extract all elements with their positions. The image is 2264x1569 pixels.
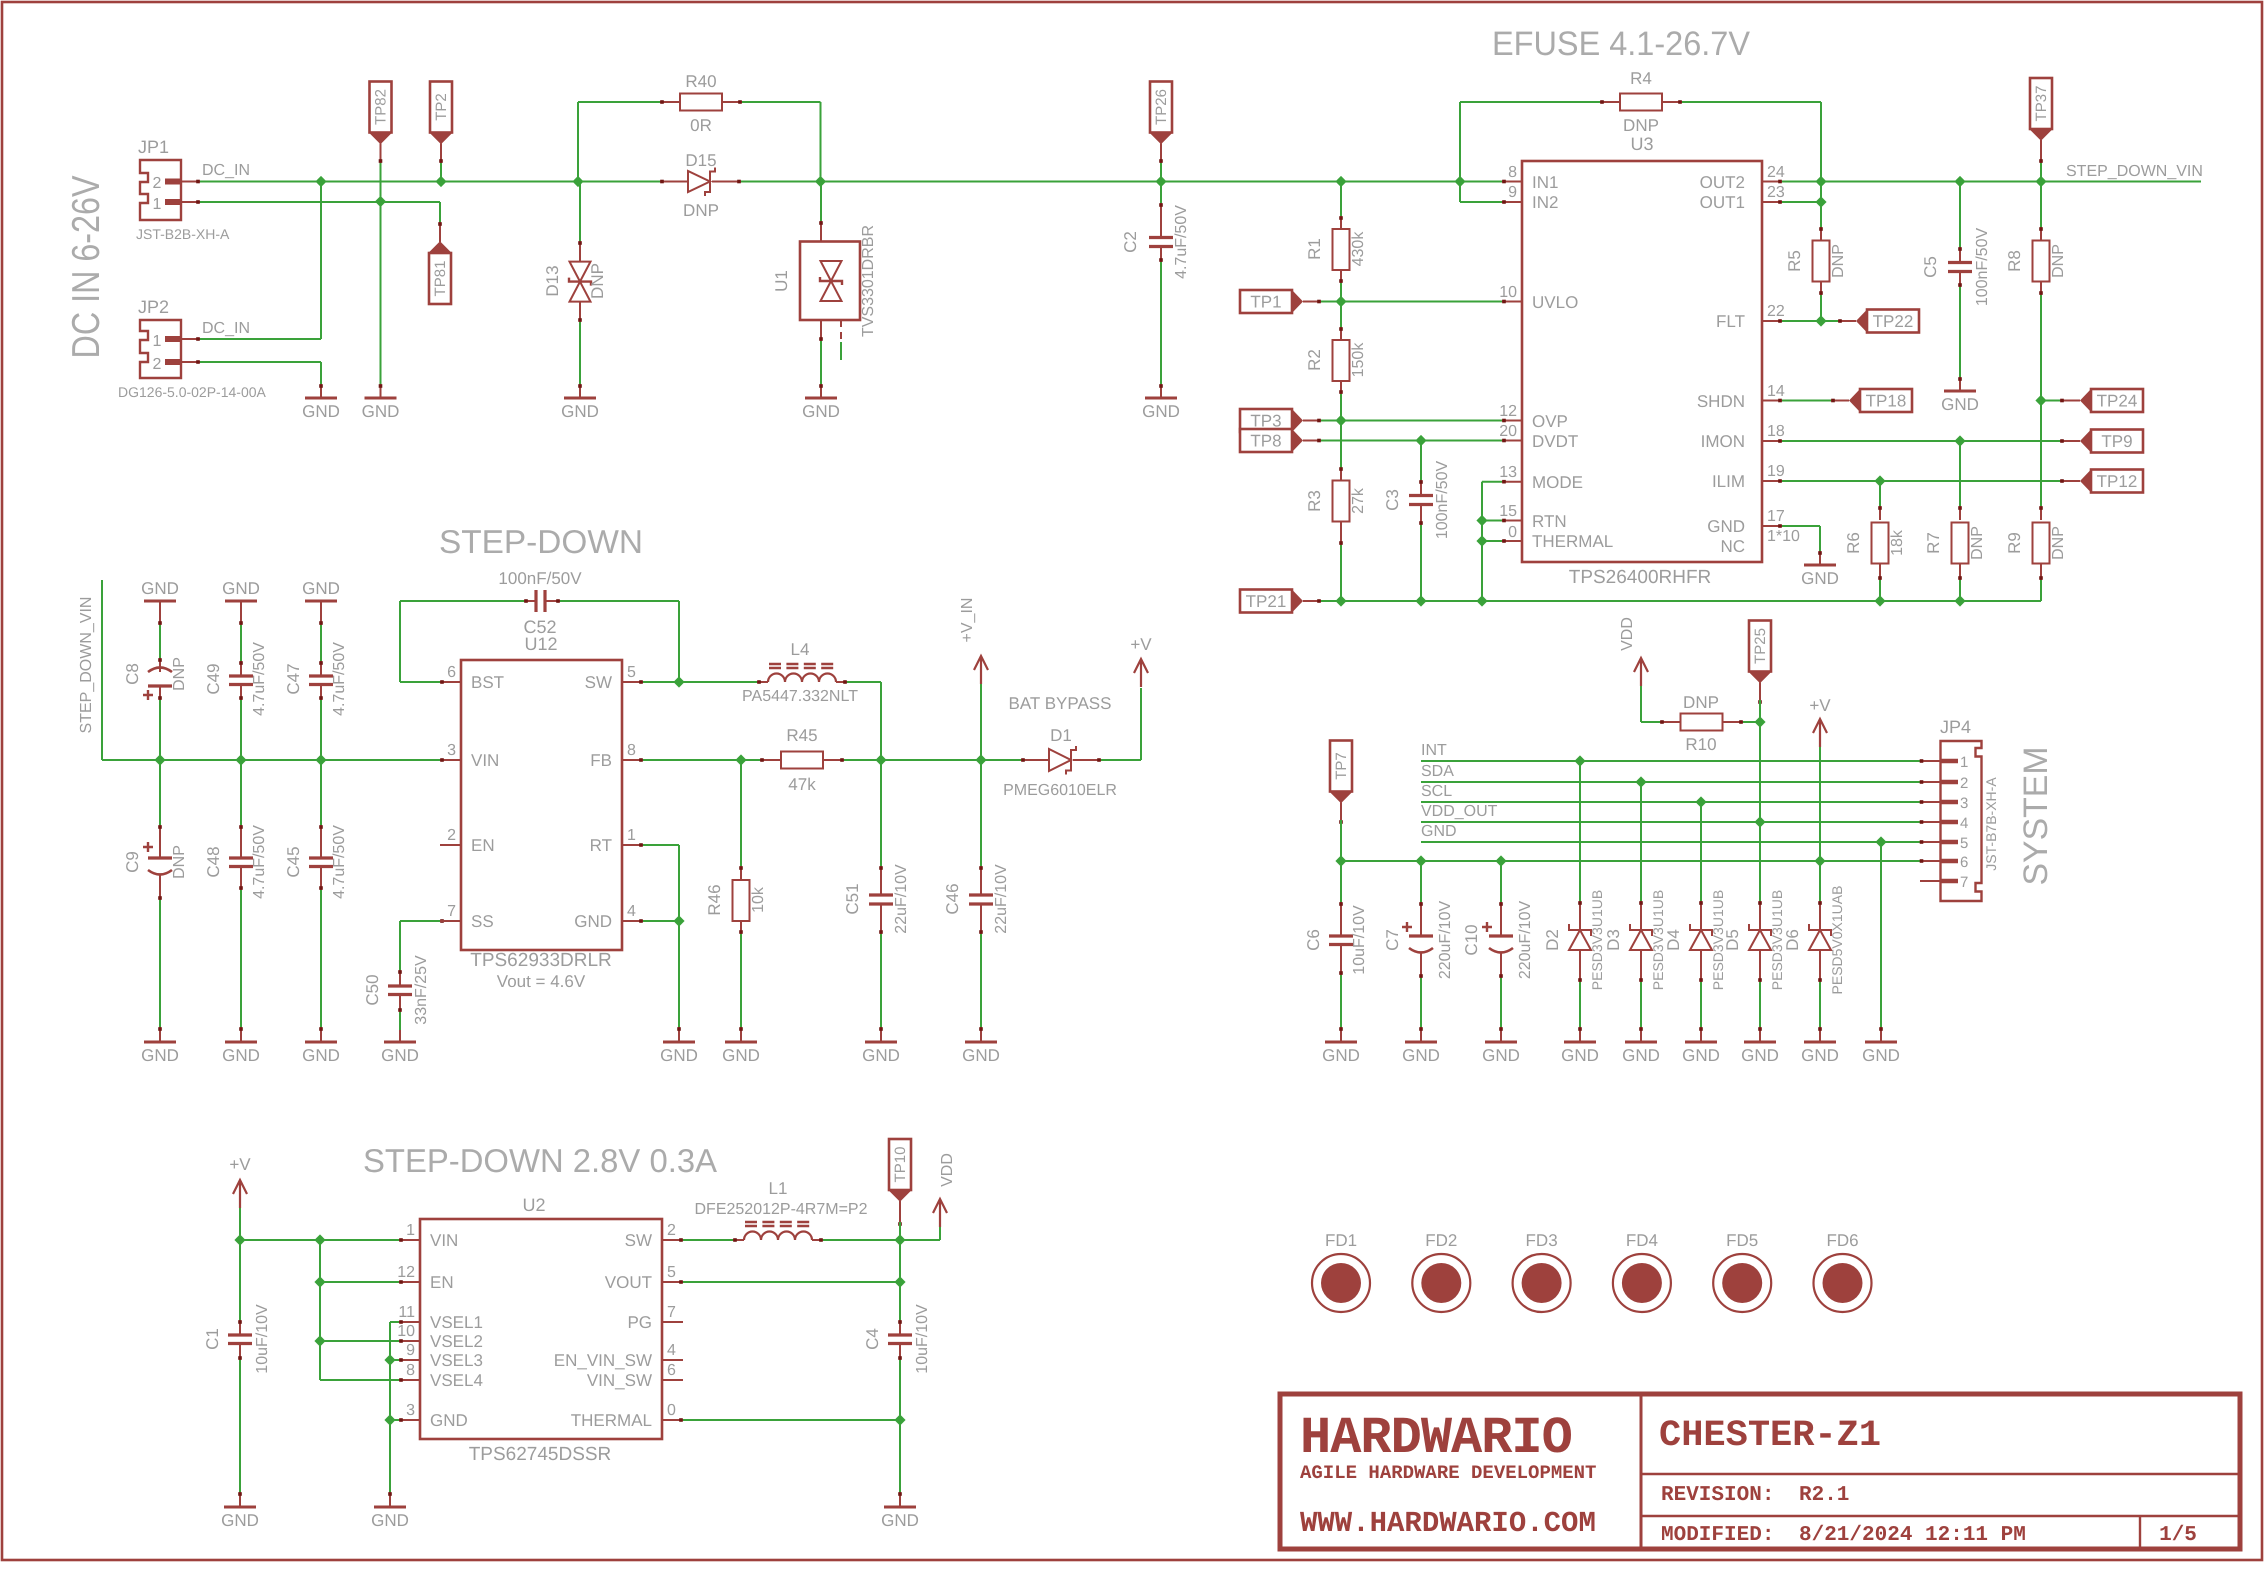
- svg-text:D2: D2: [1543, 929, 1562, 951]
- wire R5 to FLT: [1820, 295, 1822, 321]
- svg-text:100nF/50V: 100nF/50V: [1434, 461, 1451, 540]
- svg-text:33nF/25V: 33nF/25V: [413, 955, 430, 1025]
- svg-text:10uF/10V: 10uF/10V: [254, 1304, 271, 1374]
- svg-text:ILIM: ILIM: [1712, 472, 1745, 491]
- junction THERMAL: [1476, 535, 1487, 546]
- svg-text:C50: C50: [363, 974, 382, 1005]
- svg-text:4.7uF/50V: 4.7uF/50V: [331, 642, 348, 716]
- svg-text:D4: D4: [1664, 929, 1683, 951]
- gnd symbol above C49: [225, 600, 257, 603]
- svg-text:GND: GND: [1801, 1046, 1839, 1065]
- svg-text:3: 3: [406, 1402, 415, 1419]
- svg-text:2: 2: [1960, 775, 1968, 792]
- ic U12 TPS62933DRLR: [461, 660, 622, 950]
- svg-text:PA5447.332NLT: PA5447.332NLT: [742, 688, 858, 705]
- tvs diode D13: [579, 182, 581, 242]
- svg-text:3: 3: [1960, 795, 1968, 812]
- gnd symbol U12: [663, 1041, 695, 1044]
- resistor R40: [578, 101, 660, 103]
- svg-text:C8: C8: [123, 663, 142, 685]
- svg-text:JST-B7B-XH-A: JST-B7B-XH-A: [1983, 777, 1999, 871]
- svg-text:C46: C46: [943, 883, 962, 914]
- wire efuse bottom rail: [1321, 600, 2041, 602]
- wire INT: [1421, 760, 1920, 762]
- wire R40 right leg: [742, 101, 821, 103]
- U3 right pin leads: [1762, 181, 1782, 183]
- svg-text:THERMAL: THERMAL: [571, 1411, 652, 1430]
- svg-text:GND: GND: [1142, 402, 1180, 421]
- svg-text:R6: R6: [1844, 532, 1863, 554]
- wire SHDN: [1782, 400, 1831, 402]
- zener diode D3 PESD3V3U1UB: [1640, 782, 1642, 901]
- wire VDD_OUT riser: [1759, 722, 1761, 822]
- wire JP2.1 riser: [320, 182, 322, 340]
- svg-text:HARDWARIO: HARDWARIO: [1300, 1409, 1572, 1468]
- wire SCL: [1421, 801, 1920, 803]
- testpoint TP18: [1831, 400, 1849, 402]
- svg-text:4.7uF/50V: 4.7uF/50V: [251, 825, 268, 899]
- svg-text:GND: GND: [1402, 1046, 1440, 1065]
- svg-text:220uF/10V: 220uF/10V: [1517, 901, 1534, 980]
- svg-text:22: 22: [1767, 303, 1785, 320]
- svg-text:1: 1: [627, 827, 636, 844]
- svg-text:TP81: TP81: [432, 261, 449, 297]
- svg-text:1*10: 1*10: [1767, 528, 1800, 545]
- svg-text:GND: GND: [561, 402, 599, 421]
- gnd symbol D6: [1804, 1041, 1836, 1044]
- svg-text:GND: GND: [1801, 569, 1839, 588]
- svg-text:R2.1: R2.1: [1799, 1484, 1849, 1507]
- svg-text:22uF/10V: 22uF/10V: [993, 864, 1010, 934]
- junction TP7/C6 bus: [1335, 855, 1346, 866]
- svg-text:GND: GND: [141, 579, 179, 598]
- svg-text:SYSTEM: SYSTEM: [2017, 747, 2055, 886]
- wire SW: [643, 681, 757, 683]
- gnd symbol C10: [1485, 1041, 1517, 1044]
- junction TP25/R10: [1754, 716, 1765, 727]
- junction R46/FB: [735, 754, 746, 765]
- testpoint TP26: [1150, 82, 1172, 133]
- svg-text:2: 2: [447, 827, 456, 844]
- junction JP2.1/rail: [315, 176, 326, 187]
- svg-text:20: 20: [1499, 423, 1517, 440]
- svg-text:10uF/10V: 10uF/10V: [914, 1304, 931, 1374]
- capacitor C51: [880, 760, 882, 866]
- svg-text:SW: SW: [585, 673, 612, 692]
- svg-text:GND: GND: [302, 579, 340, 598]
- svg-text:JP4: JP4: [1940, 717, 1971, 737]
- svg-text:8: 8: [406, 1362, 415, 1379]
- svg-text:8: 8: [627, 742, 636, 759]
- wire R10 to TP25 node: [1743, 721, 1760, 723]
- U1 nc pin dashed: [840, 320, 842, 340]
- gnd symbol D2: [1564, 1041, 1596, 1044]
- svg-text:D13: D13: [543, 265, 562, 296]
- gnd symbol above C47: [305, 600, 337, 603]
- svg-text:DC_IN: DC_IN: [202, 320, 250, 337]
- capacitor C9 (DNP polarized): [159, 760, 161, 825]
- svg-text:18k: 18k: [1889, 529, 1906, 556]
- svg-text:DNP: DNP: [171, 657, 188, 691]
- svg-text:10uF/10V: 10uF/10V: [1351, 905, 1368, 975]
- tvs U1: [820, 182, 822, 222]
- capacitor C48: [240, 760, 242, 825]
- svg-text:VSEL2: VSEL2: [430, 1332, 483, 1351]
- wire RT loop: [643, 844, 679, 846]
- wire FB: [643, 759, 760, 761]
- junction C10/bus: [1495, 855, 1506, 866]
- svg-text:GND: GND: [362, 402, 400, 421]
- svg-text:GND: GND: [1862, 1046, 1900, 1065]
- junction +V/D6 bus: [1814, 855, 1825, 866]
- wire ILIM: [1782, 480, 2060, 482]
- wire SDA: [1421, 781, 1920, 783]
- zener diode D6 PESD5V0X1UAB: [1819, 861, 1821, 901]
- junction C8/rail: [154, 754, 165, 765]
- svg-text:R3: R3: [1305, 490, 1324, 512]
- capacitor C4: [899, 1320, 901, 1335]
- svg-text:TP22: TP22: [1873, 312, 1914, 331]
- wire L1 out: [823, 1239, 900, 1241]
- testpoint TP7: [1330, 741, 1352, 792]
- svg-text:TP24: TP24: [2097, 392, 2138, 411]
- svg-text:GND: GND: [802, 402, 840, 421]
- svg-text:C7: C7: [1383, 929, 1402, 951]
- wire UVLO: [1321, 301, 1502, 303]
- svg-text:D15: D15: [685, 151, 716, 170]
- svg-text:R9: R9: [2005, 532, 2024, 554]
- svg-text:GND: GND: [221, 1511, 259, 1530]
- svg-text:VSEL3: VSEL3: [430, 1351, 483, 1370]
- svg-text:GND: GND: [302, 1046, 340, 1065]
- svg-text:TPS62933DRLR: TPS62933DRLR: [470, 950, 612, 971]
- capacitor C47: [320, 601, 322, 625]
- svg-text:GND: GND: [222, 1046, 260, 1065]
- svg-text:27k: 27k: [1350, 487, 1367, 514]
- svg-text:MODIFIED:: MODIFIED:: [1661, 1524, 1774, 1547]
- gnd symbol below TP82: [365, 397, 397, 400]
- svg-text:JP1: JP1: [138, 137, 169, 157]
- testpoint TP21: [1240, 590, 1292, 613]
- svg-text:TP21: TP21: [1246, 592, 1287, 611]
- gnd symbol C46: [965, 1041, 997, 1044]
- svg-text:VIN: VIN: [430, 1231, 458, 1250]
- svg-text:C1: C1: [203, 1328, 222, 1350]
- pin JP2.1 lead: [181, 338, 200, 340]
- resistor R1: [1340, 216, 1342, 229]
- resistor R8: [2040, 182, 2042, 228]
- wire STEP_DOWN_VIN stub: [101, 580, 103, 760]
- diode D15: [660, 181, 688, 183]
- svg-text:GND: GND: [1707, 517, 1745, 536]
- svg-text:8: 8: [1508, 164, 1517, 181]
- svg-text:REVISION:: REVISION:: [1661, 1484, 1774, 1507]
- junction ILIM/R6: [1874, 475, 1885, 486]
- svg-text:BAT BYPASS: BAT BYPASS: [1009, 694, 1112, 713]
- svg-text:TPS62745DSSR: TPS62745DSSR: [469, 1444, 612, 1465]
- junction C5/rail: [1954, 176, 1965, 187]
- wire R45 to C51 node: [844, 759, 981, 761]
- wire +V rail to VIN: [240, 1239, 399, 1241]
- svg-text:EFUSE 4.1-26.7V: EFUSE 4.1-26.7V: [1492, 25, 1750, 63]
- svg-text:15: 15: [1499, 503, 1517, 520]
- svg-text:4.7uF/50V: 4.7uF/50V: [1173, 205, 1190, 279]
- svg-text:GND: GND: [722, 1046, 760, 1065]
- wire R1-R2: [1340, 283, 1342, 327]
- testpoint TP2: [430, 82, 452, 133]
- svg-text:RT: RT: [590, 836, 612, 855]
- svg-text:430k: 430k: [1350, 231, 1367, 267]
- svg-text:C52: C52: [523, 617, 556, 637]
- connector JP2: [140, 320, 181, 378]
- gnd symbol JP4 gnd net: [1865, 1041, 1897, 1044]
- svg-text:10k: 10k: [750, 886, 767, 913]
- svg-text:VDD: VDD: [1619, 617, 1636, 651]
- wire MODE chain: [1482, 481, 1502, 483]
- svg-text:18: 18: [1767, 423, 1785, 440]
- svg-text:C4: C4: [863, 1328, 882, 1350]
- capacitor C45: [320, 760, 322, 825]
- svg-text:C49: C49: [204, 663, 223, 694]
- svg-text:TVS3301DRBR: TVS3301DRBR: [860, 225, 877, 337]
- svg-text:VIN_SW: VIN_SW: [587, 1371, 652, 1390]
- svg-text:220uF/10V: 220uF/10V: [1437, 901, 1454, 980]
- wire TP82 to GND: [380, 202, 382, 385]
- resistor R4: [1460, 101, 1600, 103]
- wire VSEL1/VSEL3 riser: [389, 1322, 391, 1492]
- svg-text:U1: U1: [772, 270, 791, 292]
- svg-text:9: 9: [1508, 184, 1517, 201]
- svg-text:DNP: DNP: [683, 201, 719, 220]
- svg-text:DNP: DNP: [1969, 526, 1986, 560]
- svg-text:C10: C10: [1462, 924, 1481, 955]
- gnd symbol D3: [1625, 1041, 1657, 1044]
- svg-text:CHESTER-Z1: CHESTER-Z1: [1659, 1415, 1881, 1457]
- wire U12 gnd pin: [643, 920, 679, 922]
- wire RTN: [1482, 520, 1502, 522]
- junction IMON/R7: [1954, 435, 1965, 446]
- svg-text:C5: C5: [1921, 256, 1940, 278]
- wire U2 gnd: [390, 1419, 399, 1421]
- svg-text:L4: L4: [791, 640, 810, 659]
- svg-text:150k: 150k: [1350, 342, 1367, 378]
- svg-text:R5: R5: [1785, 250, 1804, 272]
- testpoint TP9: [2060, 440, 2080, 442]
- svg-text:GND: GND: [1421, 823, 1457, 840]
- svg-text:IN1: IN1: [1532, 173, 1558, 192]
- junction R1/rail: [1335, 176, 1346, 187]
- svg-text:R1: R1: [1305, 238, 1324, 260]
- svg-text:1/5: 1/5: [2159, 1524, 2197, 1547]
- capacitor C49: [240, 601, 242, 625]
- svg-text:Vout = 4.6V: Vout = 4.6V: [497, 972, 586, 991]
- svg-text:OUT1: OUT1: [1700, 193, 1745, 212]
- svg-text:GND: GND: [371, 1511, 409, 1530]
- svg-text:5: 5: [627, 664, 636, 681]
- svg-text:TP3: TP3: [1250, 412, 1281, 431]
- svg-text:FD3: FD3: [1526, 1231, 1558, 1250]
- junction C46 node: [975, 754, 986, 765]
- svg-text:GND: GND: [862, 1046, 900, 1065]
- svg-text:VDD_OUT: VDD_OUT: [1421, 803, 1498, 820]
- gnd symbol C1: [224, 1506, 256, 1509]
- svg-text:DNP: DNP: [2050, 526, 2067, 560]
- testpoint TP1: [1240, 290, 1292, 313]
- svg-text:FD1: FD1: [1325, 1231, 1357, 1250]
- svg-text:+V_IN: +V_IN: [959, 598, 976, 643]
- svg-text:GND: GND: [1682, 1046, 1720, 1065]
- svg-text:PESD5V0X1UAB: PESD5V0X1UAB: [1829, 886, 1845, 995]
- zener diode D5 PESD3V3U1UB: [1759, 822, 1761, 901]
- wire R8 to TP24 node: [2040, 295, 2042, 401]
- junction THERMAL/C4: [894, 1414, 905, 1425]
- junction TP1/UVLO: [1335, 296, 1346, 307]
- svg-text:FD5: FD5: [1726, 1231, 1758, 1250]
- svg-text:4: 4: [667, 1342, 676, 1359]
- svg-text:IMON: IMON: [1701, 432, 1745, 451]
- wire VOUT riser: [899, 1240, 901, 1320]
- junction C3/bottom rail: [1415, 595, 1426, 606]
- junction SW/C52: [673, 676, 684, 687]
- svg-text:AGILE HARDWARE DEVELOPMENT: AGILE HARDWARE DEVELOPMENT: [1300, 1462, 1596, 1484]
- junction U2 gnd: [384, 1414, 395, 1425]
- svg-text:6: 6: [1960, 854, 1968, 871]
- capacitor C7 polarized: [1420, 861, 1422, 902]
- U12 right pin leads: [622, 681, 643, 683]
- testpoint TP81: [439, 222, 441, 242]
- capacitor C10 polarized: [1500, 861, 1502, 902]
- testpoint TP10: [889, 1139, 911, 1190]
- resistor R2: [1340, 327, 1342, 340]
- wire C4 gnd: [899, 1420, 901, 1492]
- wire EN riser: [319, 1240, 321, 1380]
- wire OVP: [1321, 420, 1502, 422]
- svg-text:U12: U12: [524, 634, 557, 654]
- wire VDD_OUT: [1421, 821, 1920, 823]
- svg-text:DNP: DNP: [2050, 244, 2067, 278]
- svg-text:0: 0: [667, 1402, 676, 1419]
- gnd symbol below C45: [305, 1041, 337, 1044]
- junction D13/R40 on rail: [572, 176, 583, 187]
- wire rail right of U3: [1782, 181, 2201, 183]
- svg-text:EN_VIN_SW: EN_VIN_SW: [554, 1351, 652, 1370]
- junction R6/bottom rail: [1874, 595, 1885, 606]
- svg-text:R46: R46: [705, 884, 724, 915]
- pin JP2.2 lead: [181, 361, 200, 363]
- U2 left pin leads: [399, 1239, 420, 1241]
- svg-text:FLT: FLT: [1716, 312, 1745, 331]
- testpoint TP24: [2041, 400, 2060, 402]
- svg-text:12: 12: [1499, 403, 1517, 420]
- resistor R45: [760, 759, 781, 761]
- svg-text:THERMAL: THERMAL: [1532, 532, 1613, 551]
- svg-text:D1: D1: [1050, 726, 1072, 745]
- gnd symbol R46: [725, 1041, 757, 1044]
- svg-text:SCL: SCL: [1421, 783, 1452, 800]
- svg-text:24: 24: [1767, 164, 1785, 181]
- capacitor C8 (DNP polarized): [159, 601, 161, 625]
- junction TP24 node: [2035, 395, 2046, 406]
- svg-text:DC IN 6-26V: DC IN 6-26V: [65, 176, 108, 359]
- svg-text:VSEL1: VSEL1: [430, 1313, 483, 1332]
- junction C7/bus: [1415, 855, 1426, 866]
- wire L4 out: [847, 681, 881, 683]
- svg-text:23: 23: [1767, 184, 1785, 201]
- junction C49/rail: [235, 754, 246, 765]
- junction R4/rail OUT2: [1815, 176, 1826, 187]
- capacitor C46: [980, 760, 982, 866]
- junction TP3/OVP: [1335, 415, 1346, 426]
- svg-text:R10: R10: [1685, 735, 1716, 754]
- svg-text:7: 7: [1960, 874, 1968, 891]
- svg-text:DNP: DNP: [1830, 244, 1847, 278]
- svg-text:9: 9: [406, 1342, 415, 1359]
- svg-text:5: 5: [667, 1264, 676, 1281]
- pin JP1.1 lead: [181, 201, 200, 203]
- svg-text:U3: U3: [1630, 134, 1653, 154]
- ic U2 TPS62745DSSR: [420, 1219, 662, 1439]
- svg-text:2: 2: [153, 175, 162, 192]
- gnd symbol D4: [1685, 1041, 1717, 1044]
- gnd symbol U2: [374, 1506, 406, 1509]
- junction C47/rail: [315, 754, 326, 765]
- junction VSEL3: [384, 1354, 395, 1365]
- resistor R3: [1340, 468, 1342, 482]
- svg-text:BST: BST: [471, 673, 504, 692]
- svg-text:GND: GND: [430, 1411, 468, 1430]
- junction C3/DVDT: [1415, 435, 1426, 446]
- svg-text:DC_IN: DC_IN: [202, 162, 250, 179]
- junction TP26/rail: [1155, 176, 1166, 187]
- svg-text:R7: R7: [1924, 532, 1943, 554]
- svg-text:SS: SS: [471, 912, 494, 931]
- resistor R4 riser: [1459, 102, 1461, 182]
- svg-text:FD2: FD2: [1425, 1231, 1457, 1250]
- svg-text:0R: 0R: [690, 116, 712, 135]
- junction R3/bottom rail: [1335, 595, 1346, 606]
- svg-text:0: 0: [1508, 524, 1517, 541]
- svg-text:GND: GND: [381, 1046, 419, 1065]
- svg-text:VSEL4: VSEL4: [430, 1371, 483, 1390]
- svg-text:D5: D5: [1723, 929, 1742, 951]
- capacitor C1: [239, 1240, 241, 1320]
- connector JP4: [1941, 741, 1982, 901]
- gnd symbol C51: [865, 1041, 897, 1044]
- testpoint TP8: [1240, 429, 1292, 452]
- wire GND row to symbol: [1875, 836, 1886, 847]
- junction FLT/TP22: [1815, 315, 1826, 326]
- ic U3 TPS26400RHFR: [1522, 161, 1762, 562]
- junction MODE chain/bottom rail: [1476, 595, 1487, 606]
- supply VDD (stepdown 2.8): [933, 1199, 947, 1227]
- supply +V (bat): [1134, 659, 1148, 687]
- junction R4 left/rail: [1454, 176, 1465, 187]
- svg-text:+V: +V: [229, 1155, 251, 1174]
- wire EN: [320, 1281, 399, 1283]
- svg-text:DNP: DNP: [1683, 693, 1719, 712]
- junction TP37/rail: [2035, 176, 2046, 187]
- wire DVDT: [1321, 440, 1502, 442]
- svg-text:UVLO: UVLO: [1532, 293, 1578, 312]
- wire THERMAL: [1482, 540, 1502, 542]
- junction EN: [314, 1276, 325, 1287]
- capacitor C5: [1959, 182, 1961, 248]
- svg-text:TP2: TP2: [433, 93, 450, 121]
- svg-text:NC: NC: [1720, 537, 1745, 556]
- junction TP10/VDD node: [894, 1234, 905, 1245]
- svg-text:GND: GND: [574, 912, 612, 931]
- svg-text:17: 17: [1767, 508, 1785, 525]
